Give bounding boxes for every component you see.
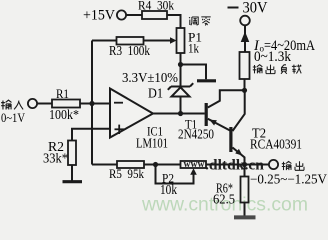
svg-text:30V: 30V [243, 0, 269, 17]
opamp minus sign [114, 102, 123, 104]
terminal -30V circle [240, 16, 250, 26]
wire R4 to P1 top [167, 15, 181, 28]
resistor R2 [68, 141, 76, 166]
wire R1 to opamp inverting input [80, 103, 110, 105]
wire node to ground stub [181, 65, 207, 80]
wire +15V to R4 [126, 14, 142, 16]
svg-text:0~1V: 0~1V [1, 110, 25, 125]
wire node to zener D1 [180, 65, 182, 87]
wire T2 collector [233, 90, 245, 131]
label 调零 [189, 17, 211, 26]
terminal +15V circle [117, 10, 126, 19]
resistor R4 [142, 11, 167, 19]
svg-text:3.3V±10%: 3.3V±10% [122, 71, 178, 86]
arrowhead T1 emitter [209, 120, 217, 126]
label 输出 (output) [282, 161, 304, 170]
label 输入 (input) [1, 100, 23, 109]
ground (R6) [234, 215, 256, 219]
arrowhead P1 wiper [170, 37, 177, 43]
wire opamp output [153, 113, 205, 115]
svg-text:33k*: 33k* [43, 151, 68, 166]
resistor R5 [117, 161, 144, 168]
wire T1 emitter to T2 base [208, 119, 230, 131]
wire noninverting input to R2 [72, 129, 110, 141]
load resistor box [240, 52, 250, 79]
svg-text:D1: D1 [148, 86, 163, 101]
svg-text:R1: R1 [56, 86, 69, 101]
arrowhead T2 emitter [235, 149, 242, 156]
svg-text:LM101: LM101 [136, 136, 168, 151]
wire T1 collector [208, 90, 245, 107]
wire vertical feedback column [91, 41, 93, 165]
junction node R1/opamp [89, 101, 94, 106]
svg-text:1k: 1k [188, 41, 199, 56]
resistor R6 [241, 177, 249, 203]
wire R6 to ground [244, 203, 246, 217]
wire R3 row [92, 40, 117, 42]
wire input to R1 [37, 103, 52, 105]
arrowhead P2 wiper [190, 168, 197, 175]
resistor R3 [117, 37, 144, 45]
wire P1 bottom to node [180, 53, 182, 65]
svg-text:RCA40391: RCA40391 [250, 137, 302, 152]
svg-text:R3 100k: R3 100k [109, 43, 150, 58]
wire T2 emitter [233, 148, 245, 165]
svg-text:+15V: +15V [83, 8, 116, 24]
junction node R5/P2 [153, 162, 158, 167]
junction node collector/load [242, 88, 247, 93]
wire P2 wiper loop [156, 165, 194, 184]
svg-text:100k*: 100k* [49, 107, 79, 122]
svg-text:R4 30k: R4 30k [138, 0, 174, 13]
svg-text:R5 95k: R5 95k [109, 166, 144, 181]
op-amp IC1 triangle [110, 89, 153, 138]
wire D1 to opamp output line [180, 97, 182, 114]
wire -30V to load [244, 25, 246, 52]
potentiometer P2 [181, 161, 207, 168]
svg-text:10k: 10k [160, 182, 177, 197]
svg-text:2N4250: 2N4250 [178, 127, 214, 142]
label 输出负载 (output load) [253, 65, 301, 74]
junction node output [242, 162, 247, 167]
resistor R1 [52, 100, 80, 108]
terminal output circle [269, 160, 278, 169]
svg-text:0~1.3k: 0~1.3k [254, 49, 292, 65]
wire load to collector node [244, 79, 246, 90]
wire P2 to output node [206, 164, 245, 166]
wire R2 to ground [71, 165, 73, 181]
transistor T1 base bar [205, 103, 208, 126]
junction node opamp output [178, 111, 183, 116]
terminal input circle [28, 99, 37, 108]
ground (zener node) [197, 79, 216, 82]
wire output node to terminal [245, 164, 270, 166]
wire R3 to P1 wiper [144, 40, 172, 42]
label -30V [228, 7, 239, 9]
ground (R2) [63, 180, 83, 183]
wire R5 to P2 [144, 164, 181, 166]
zener diode D1 [168, 83, 193, 96]
transistor T2 base bar [229, 127, 232, 152]
svg-text:−0.25~−1.25V: −0.25~−1.25V [250, 172, 327, 187]
svg-text:62.5: 62.5 [213, 192, 235, 207]
arrowhead load current [241, 32, 250, 43]
wire feedback bottom corner to R5 [92, 164, 117, 166]
potentiometer P1 [177, 28, 185, 53]
wire output node to R6 [244, 165, 246, 177]
junction node P1 bottom [178, 62, 183, 67]
opamp plus sign [115, 128, 125, 130]
